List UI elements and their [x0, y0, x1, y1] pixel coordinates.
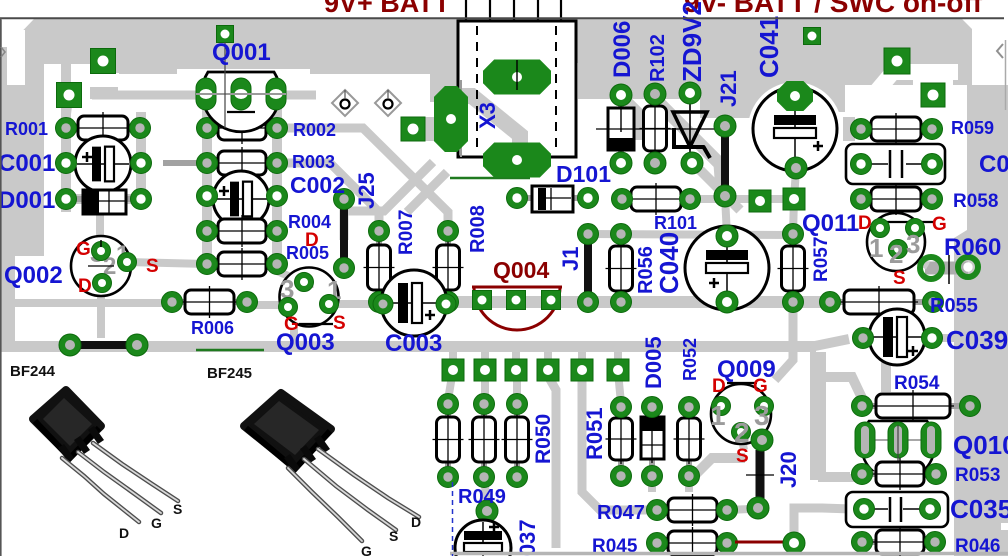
- svg-text:D001: D001: [0, 187, 55, 214]
- X3 pad 3 octagon: [483, 143, 551, 178]
- transistor Q003 outline: [280, 268, 339, 327]
- pad R046.2: [925, 532, 946, 553]
- pad R046.1: [852, 532, 873, 553]
- svg-text:D: D: [119, 525, 129, 541]
- Q011 pad 1: [871, 219, 890, 238]
- Q003 pad 2: [295, 273, 314, 292]
- diagonal trace to J21 bottom: [652, 96, 722, 192]
- wire jumper J21 bar: [721, 132, 729, 190]
- via square pad A2: [57, 83, 82, 108]
- resistor R006: [172, 299, 247, 305]
- svg-text:R005: R005: [286, 243, 329, 263]
- photo BF245 leg G: [288, 468, 362, 541]
- pad R003.2: [267, 153, 288, 174]
- resistor R007 vertical: [376, 231, 382, 302]
- pad R053.1: [852, 464, 873, 485]
- pad C002.2: [267, 186, 288, 207]
- resistor R053: [862, 471, 936, 477]
- via squares row above resistor bank: [442, 359, 464, 381]
- trace Q002 S to R005: [127, 262, 207, 264]
- Q001 pin line: [196, 93, 286, 95]
- pad C003.2: [436, 294, 456, 314]
- pad R056.1: [611, 224, 632, 245]
- svg-text:9V+ BATT: 9V+ BATT: [324, 0, 451, 18]
- pad R058.2: [922, 189, 943, 210]
- pad jumper.2: [126, 334, 148, 356]
- ground plane right of X3 with clearance steps: [740, 63, 972, 112]
- Q009 pad D: [712, 397, 731, 416]
- pad R051.2: [611, 466, 632, 487]
- pad D101.1: [507, 188, 528, 209]
- Q010 pad 3: [921, 422, 941, 458]
- trace row C001: [61, 158, 145, 168]
- svg-text:S: S: [173, 501, 182, 517]
- pad R006.2: [237, 292, 258, 313]
- pad R059.2: [922, 119, 943, 140]
- pad R052.1: [679, 397, 700, 418]
- svg-text:D005: D005: [641, 336, 666, 389]
- svg-text:R051: R051: [582, 407, 607, 460]
- left window border: [0, 18, 2, 556]
- svg-text:R102: R102: [647, 34, 669, 82]
- svg-text:R101: R101: [654, 213, 697, 233]
- svg-text:D: D: [858, 213, 872, 234]
- svg-text:R050: R050: [532, 414, 555, 464]
- fiducial mark 2: [375, 90, 401, 116]
- resistor R054: [862, 403, 970, 409]
- ground plane behind D006 R102 ZD J21 labels: [578, 60, 760, 99]
- pad C040.2: [716, 291, 738, 313]
- pad R005.2: [267, 254, 288, 275]
- svg-text:S: S: [389, 528, 398, 544]
- svg-text:9V- BATT / SWC on-off: 9V- BATT / SWC on-off: [684, 0, 983, 18]
- pad ZD.2: [681, 152, 703, 174]
- vertical trace x582 to R047: [582, 376, 653, 510]
- capacitor C003: [381, 270, 447, 336]
- white clearance below square A1: [88, 73, 119, 87]
- trace into Q009 from left: [688, 458, 745, 482]
- diode D101 body: [517, 195, 588, 201]
- capacitor C040: [685, 226, 769, 310]
- svg-text:R053: R053: [955, 465, 1000, 486]
- ground plane top band: [10, 19, 972, 74]
- inner-layer green trace near D101: [450, 177, 530, 180]
- pad D005.2: [642, 466, 663, 487]
- diagonal trace X3 area down-left: [407, 172, 447, 212]
- pad R004.2: [267, 221, 288, 242]
- pad J25.2: [334, 258, 355, 279]
- svg-text:S: S: [146, 256, 159, 277]
- resistor R005: [207, 261, 277, 267]
- pad R001.1: [56, 118, 77, 139]
- trace row D001: [61, 194, 145, 204]
- pad R050.1: [507, 394, 528, 415]
- svg-text:Q004: Q004: [493, 257, 549, 283]
- pad J1.1: [578, 224, 599, 245]
- Q010 pad 2: [888, 422, 908, 458]
- trace D001 down to Q002 G: [96, 205, 104, 244]
- pad D001.1: [56, 189, 77, 210]
- svg-text:G: G: [361, 543, 372, 556]
- resistor R046: [862, 539, 935, 545]
- trace long row y302 Q004 to R055: [445, 296, 833, 308]
- white clearance channel in top band right side: [832, 72, 958, 144]
- resistor R051 vertical: [618, 407, 624, 476]
- Q001 center lead line: [224, 42, 226, 128]
- X3 grey edge line: [460, 80, 462, 157]
- pad J1.2: [578, 292, 599, 313]
- svg-text:R059: R059: [951, 118, 994, 138]
- pad J21.1: [714, 115, 736, 137]
- resistor R008 vertical: [445, 231, 451, 302]
- top separator line: [0, 17, 1004, 19]
- svg-text:J25: J25: [354, 172, 379, 209]
- Q002 pad S: [118, 253, 137, 272]
- pad C039.1: [853, 328, 874, 349]
- board edge blue dashed line: [452, 482, 454, 556]
- wire jumper J20 bar: [756, 450, 765, 500]
- svg-text:R049: R049: [458, 486, 506, 508]
- resistor R048 vertical: [445, 404, 451, 477]
- left panel arrow: [1, 47, 5, 57]
- pad R057.1: [783, 224, 804, 245]
- trace R060: [925, 262, 968, 275]
- wire jumper bottom-left: [76, 341, 130, 349]
- Q003 pad S: [320, 295, 339, 314]
- svg-text:R002: R002: [293, 120, 336, 140]
- svg-text:3: 3: [754, 400, 770, 431]
- trace R006 to left column: [12, 299, 174, 307]
- trace band to R054 via L: [810, 352, 826, 480]
- pad C002.1: [197, 186, 218, 207]
- trace C039 area down to R054: [881, 352, 891, 392]
- svg-text:G: G: [151, 515, 162, 531]
- pad C035.2: [920, 499, 941, 520]
- inner-layer green trace near Q003: [196, 349, 264, 352]
- svg-text:S: S: [333, 313, 346, 334]
- right copper column: [954, 85, 1008, 556]
- photo BF245 leg S: [304, 459, 396, 530]
- resistor R045: [657, 540, 727, 546]
- pad C041 bottom: [785, 157, 807, 179]
- X3 inner staircase trace: [452, 96, 520, 157]
- power transistor Q004 outline: [472, 287, 562, 330]
- pad R045.2: [717, 533, 738, 554]
- diode D006 body: [618, 95, 624, 163]
- Q003 G-S link line: [299, 323, 333, 325]
- pad J21.2: [714, 185, 736, 207]
- connector X3 pin lines above board edge: [465, 0, 467, 21]
- pad R060.2: [958, 257, 978, 277]
- Q010 pad 1: [855, 422, 875, 458]
- diagonal trace behind D006: [592, 68, 640, 140]
- Q003 pad G: [279, 298, 298, 317]
- svg-text:R055: R055: [930, 295, 978, 317]
- plane strip left of X3: [430, 60, 458, 102]
- pad D005.1: [642, 397, 663, 418]
- pad R102.2: [644, 152, 666, 174]
- resistor R101: [622, 196, 690, 202]
- pad C042.2: [922, 154, 943, 175]
- pad R048.2: [438, 467, 459, 488]
- Q002 pad D: [93, 274, 112, 293]
- Q001 chord line: [227, 111, 255, 113]
- trace column x277 to Q003 pad2: [277, 262, 300, 281]
- svg-text:D: D: [78, 276, 92, 297]
- photo BF244 body: [33, 390, 101, 456]
- resistor R052 vertical: [686, 407, 692, 476]
- fiducial mark 1: [332, 90, 358, 116]
- pad J25.1: [334, 189, 355, 210]
- via square pad top right small: [804, 28, 821, 45]
- Q009 D-G link line: [727, 382, 757, 384]
- pad C001.1: [56, 153, 77, 174]
- link R060 tick: [948, 255, 950, 284]
- trace column x207: [202, 100, 212, 268]
- svg-text:R047: R047: [597, 502, 645, 524]
- resistor R047: [657, 507, 727, 513]
- pad R005.1: [197, 254, 218, 275]
- svg-text:3: 3: [906, 229, 920, 259]
- transistor Q011 outline: [867, 213, 925, 271]
- trace Q003 G to R006: [245, 301, 291, 309]
- trace row R001: [61, 123, 145, 133]
- svg-text:2: 2: [734, 417, 750, 448]
- via square pad M2: [783, 188, 805, 210]
- capacitor C037: [455, 520, 511, 556]
- trace row R003 diagonal to R007: [277, 163, 379, 231]
- trace column behind right pads x141: [136, 112, 146, 204]
- trace M2 square down to R057: [793, 199, 794, 234]
- resistor R059: [861, 126, 932, 132]
- pad R054.2: [960, 396, 981, 417]
- pad R055.2: [923, 292, 944, 313]
- pin1 line through D006 row: [596, 128, 716, 130]
- X3 dashed pin lines: [476, 26, 478, 152]
- pad D006.1: [610, 84, 632, 106]
- X3 pad 1 octagon: [434, 86, 468, 152]
- long vertical trace x558: [548, 376, 556, 548]
- right panel collapse arrow: [997, 44, 1003, 58]
- svg-text:J1: J1: [558, 247, 583, 271]
- svg-text:R001: R001: [5, 119, 48, 139]
- svg-text:C035: C035: [950, 494, 1008, 524]
- connector X3 outline: [458, 21, 576, 157]
- diagonal trace X3 to J25: [344, 162, 433, 240]
- pad R003.1: [197, 153, 218, 174]
- pad R047.1: [647, 500, 668, 521]
- Q004 pad 1: [473, 291, 492, 310]
- svg-text:D: D: [411, 514, 421, 530]
- trace row R002 to via bundle: [277, 128, 448, 231]
- pad C039.2: [922, 328, 943, 349]
- capacitor C041: [753, 87, 837, 171]
- pad R045.1: [647, 533, 668, 554]
- svg-text:BF245: BF245: [207, 365, 252, 382]
- svg-text:Q001: Q001: [212, 39, 271, 66]
- svg-text:D101: D101: [556, 161, 611, 187]
- grey block below square A1: [90, 87, 118, 99]
- pad R051.1: [611, 397, 632, 418]
- svg-text:C039: C039: [946, 325, 1008, 355]
- plane patch behind square near X3: [404, 117, 440, 141]
- via square pad H2: [921, 83, 945, 107]
- pad R002.1: [197, 118, 218, 139]
- resistor R056 vertical: [618, 234, 624, 302]
- svg-text:2: 2: [889, 239, 903, 269]
- svg-text:C042: C042: [979, 151, 1008, 178]
- resistor R055: [830, 299, 933, 305]
- svg-text:Q002: Q002: [4, 262, 63, 289]
- white notch left column: [7, 30, 25, 85]
- photo BF244 leg G: [78, 452, 161, 513]
- svg-text:1: 1: [869, 233, 883, 263]
- resistor R001: [66, 125, 140, 131]
- pad via red trace: [783, 532, 805, 554]
- pad R055.1: [820, 292, 841, 313]
- pad R007.1: [369, 221, 390, 242]
- trace square pad 69,95 stub: [66, 98, 69, 122]
- trace stub R047 right pad to J20 pad: [727, 509, 750, 510]
- pad R002.2: [267, 118, 288, 139]
- trace Q003 S to C003: [327, 300, 383, 308]
- pad R048.1: [438, 394, 459, 415]
- Q001 pad 2: [231, 78, 251, 110]
- trace row y95 behind Q001 pads: [92, 91, 316, 100]
- X3 pad2 lead line: [516, 60, 518, 90]
- svg-text:C037: C037: [515, 519, 540, 556]
- right panel border line: [1005, 40, 1007, 110]
- trace bottom pads to C037: [484, 477, 487, 505]
- zener diode ZD9V2 symbol: [689, 93, 691, 163]
- resistor R058: [861, 196, 932, 202]
- svg-text:C003: C003: [385, 330, 442, 357]
- trace X3 staircase inside connector: [452, 96, 520, 157]
- svg-text:D006: D006: [609, 21, 636, 78]
- svg-text:G: G: [76, 239, 91, 260]
- svg-text:ZD9V2: ZD9V2: [677, 1, 707, 82]
- trace Q011 to R060 pad: [902, 252, 928, 266]
- pad R049.1: [474, 394, 495, 415]
- Q009 pad 2: [732, 423, 751, 442]
- transistor Q001 outline: [202, 72, 280, 132]
- svg-text:S: S: [893, 268, 906, 289]
- capacitor C042 box: [846, 144, 945, 184]
- pad C042.1: [851, 154, 872, 175]
- photo BF245 body: [244, 393, 331, 467]
- svg-text:C041: C041: [754, 16, 784, 78]
- trace column behind left pads x66: [61, 58, 71, 212]
- Q002 pad G: [92, 242, 111, 261]
- trace stub band to Q003: [290, 328, 298, 343]
- trace C039 right pad to column: [932, 334, 958, 342]
- pad ZD.1: [679, 82, 701, 104]
- svg-text:R058: R058: [953, 191, 998, 212]
- via square pad near X3: [401, 117, 425, 141]
- svg-text:R060: R060: [944, 234, 1001, 261]
- svg-text:Q010: Q010: [953, 430, 1008, 460]
- Q010 pin line: [856, 439, 940, 441]
- pad R102.1: [644, 83, 666, 105]
- trace stubs squares row up to band: [449, 348, 457, 362]
- photo BF245 leg D: [318, 449, 419, 517]
- svg-text:R003: R003: [292, 152, 335, 172]
- white clearance corner top-left: [2, 19, 34, 47]
- Q011 pad 3: [906, 219, 925, 238]
- pad J20.2: [747, 497, 769, 519]
- pad R008.1: [438, 221, 459, 242]
- svg-text:C002: C002: [290, 172, 345, 198]
- svg-text:R052: R052: [680, 338, 700, 381]
- svg-text:Q003: Q003: [276, 329, 335, 356]
- transistor Q009 outline: [711, 384, 771, 444]
- trace stubs squares row to vertical resistors: [481, 370, 489, 400]
- pad R054.1: [852, 396, 873, 417]
- trace stubs C042 R058 left leads: [845, 125, 861, 133]
- pad R006.1: [162, 292, 183, 313]
- svg-text:Q011: Q011: [802, 210, 859, 237]
- via square pad A1: [91, 49, 116, 74]
- trace R059 left clearance patch: [843, 117, 855, 141]
- pad C041 top hexagon: [777, 81, 813, 111]
- bottom grey edge line: [450, 552, 1008, 556]
- capacitor C002: [213, 171, 269, 227]
- svg-text:R004: R004: [288, 212, 331, 232]
- trace stub Q009 middle down: [741, 433, 744, 450]
- white notch right column: [1001, 523, 1008, 530]
- svg-text:1: 1: [710, 400, 726, 431]
- wire jumper J1 bar: [584, 242, 592, 295]
- trace row y234 J1-R056-C040-R057: [588, 234, 793, 235]
- pad C040.1: [716, 225, 738, 247]
- capacitor C001: [75, 136, 131, 192]
- Q009 pad G: [755, 397, 774, 416]
- Q004 pad 2: [507, 291, 526, 310]
- Q004 pad 3: [542, 291, 561, 310]
- resistor R102 vertical: [652, 94, 658, 163]
- Q002 lead tick: [100, 240, 102, 247]
- Q001 pad 1: [196, 78, 216, 110]
- wire jumper J25 bar: [340, 199, 348, 268]
- bottom horizontal power trace: [2, 341, 816, 352]
- pad R053.2: [926, 464, 947, 485]
- resistor R057 vertical: [790, 234, 796, 302]
- trace column x277: [272, 100, 282, 268]
- pad R050.2: [507, 467, 528, 488]
- pad R047.2: [717, 500, 738, 521]
- capacitor C035 box: [846, 492, 948, 527]
- resistor R050 vertical: [514, 404, 520, 477]
- pad R101.2: [680, 189, 701, 210]
- pad R007.2: [369, 292, 390, 313]
- svg-text:BF244: BF244: [10, 363, 56, 380]
- trace to C035 left pad: [794, 508, 852, 540]
- top-layer red trace from R045: [735, 541, 786, 544]
- Q001 pad 3: [266, 78, 286, 110]
- pad D001.2: [131, 189, 152, 210]
- pad C037 top: [476, 500, 498, 522]
- svg-text:R006: R006: [191, 318, 234, 338]
- svg-text:R008: R008: [467, 205, 489, 253]
- trace J21 to C040 top: [725, 196, 727, 236]
- trace D005 R052 stubs down: [648, 477, 656, 492]
- capacitor C039: [869, 309, 925, 365]
- pad R058.1: [851, 189, 872, 210]
- resistor R002: [207, 125, 277, 131]
- svg-text:X3: X3: [475, 102, 500, 129]
- trace C041 bottom to square: [794, 170, 796, 199]
- transistor Q002 outline: [71, 236, 131, 296]
